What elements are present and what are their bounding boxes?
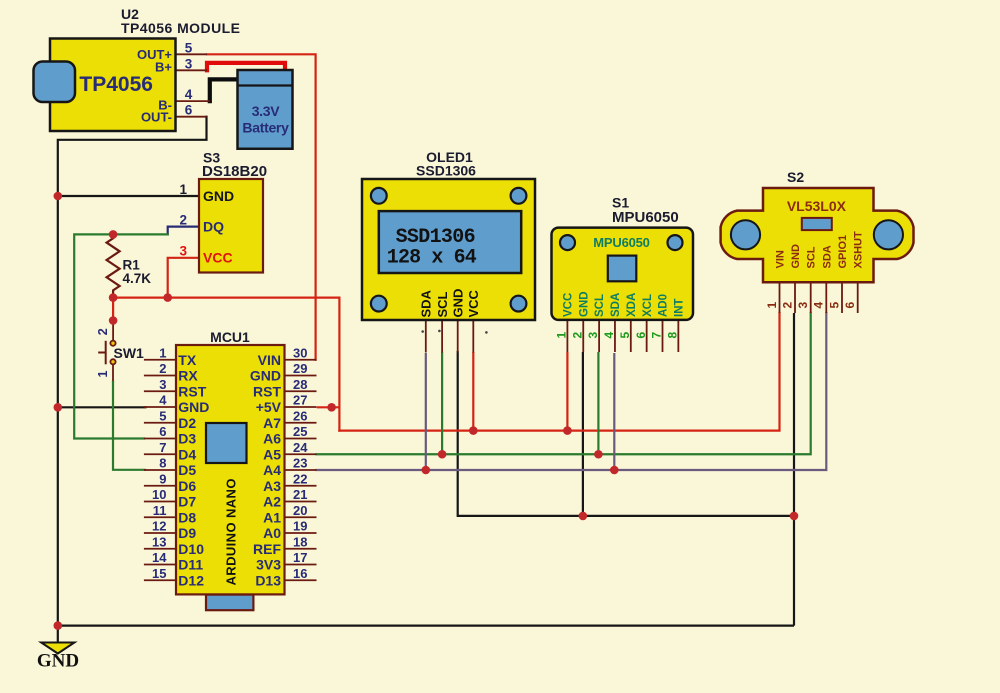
- svg-text:OUT-: OUT-: [141, 109, 172, 124]
- svg-text:Battery: Battery: [242, 120, 289, 136]
- svg-text:3: 3: [179, 244, 187, 259]
- svg-text:GND: GND: [450, 289, 465, 318]
- svg-text:6: 6: [634, 332, 648, 339]
- svg-text:GND: GND: [37, 651, 79, 672]
- svg-text:DS18B20: DS18B20: [202, 163, 267, 180]
- svg-text:11: 11: [153, 503, 167, 518]
- svg-text:+5V: +5V: [256, 399, 282, 415]
- svg-text:16: 16: [293, 566, 307, 581]
- svg-text:24: 24: [293, 440, 308, 455]
- svg-text:13: 13: [152, 534, 166, 549]
- svg-text:3: 3: [185, 56, 193, 71]
- svg-text:4: 4: [185, 87, 193, 102]
- svg-text:S2: S2: [787, 169, 804, 185]
- svg-text:18: 18: [293, 534, 307, 549]
- svg-text:RX: RX: [178, 368, 198, 384]
- svg-text:1: 1: [96, 371, 110, 378]
- svg-text:A3: A3: [263, 478, 281, 494]
- svg-text:6: 6: [185, 103, 193, 118]
- svg-text:23: 23: [293, 456, 307, 471]
- svg-text:22: 22: [293, 471, 307, 486]
- svg-text:D8: D8: [178, 509, 196, 525]
- svg-text:D2: D2: [178, 415, 196, 431]
- svg-text:D9: D9: [178, 525, 196, 541]
- svg-text:6: 6: [843, 302, 857, 309]
- svg-text:MPU6050: MPU6050: [612, 209, 679, 226]
- svg-text:10: 10: [152, 487, 166, 502]
- svg-text:2: 2: [96, 328, 110, 335]
- svg-text:D6: D6: [178, 478, 196, 494]
- svg-text:2: 2: [179, 213, 187, 228]
- svg-text:D3: D3: [178, 431, 196, 447]
- svg-text:25: 25: [293, 424, 307, 439]
- svg-text:29: 29: [293, 361, 307, 376]
- svg-text:1: 1: [159, 345, 166, 360]
- svg-text:3.3V: 3.3V: [252, 103, 281, 119]
- svg-text:SDA: SDA: [821, 245, 833, 268]
- svg-text:SSD1306: SSD1306: [416, 163, 476, 179]
- svg-text:3: 3: [159, 377, 166, 392]
- svg-text:D13: D13: [255, 572, 281, 588]
- svg-text:27: 27: [293, 393, 307, 408]
- svg-text:SSD1306: SSD1306: [396, 226, 476, 249]
- svg-text:8: 8: [665, 332, 679, 339]
- svg-text:20: 20: [293, 503, 307, 518]
- svg-text:30: 30: [293, 345, 307, 360]
- svg-text:ARDUINO NANO: ARDUINO NANO: [224, 478, 239, 585]
- svg-text:D11: D11: [178, 557, 203, 573]
- svg-text:5: 5: [618, 332, 632, 339]
- svg-text:D5: D5: [178, 462, 196, 478]
- svg-text:4: 4: [159, 393, 167, 408]
- svg-text:128 x 64: 128 x 64: [387, 247, 477, 270]
- svg-text:VIN: VIN: [258, 352, 281, 368]
- svg-text:5: 5: [185, 40, 193, 55]
- svg-text:DQ: DQ: [203, 219, 224, 235]
- svg-text:6: 6: [159, 424, 166, 439]
- svg-text:2: 2: [570, 332, 584, 339]
- svg-text:GND: GND: [250, 368, 281, 384]
- svg-text:AD0: AD0: [658, 294, 670, 317]
- svg-text:1: 1: [555, 332, 569, 339]
- svg-text:XSHUT: XSHUT: [853, 231, 865, 269]
- svg-text:MPU6050: MPU6050: [593, 235, 649, 250]
- svg-text:A5: A5: [263, 446, 281, 462]
- svg-text:VCC: VCC: [466, 289, 481, 317]
- svg-text:TP4056 MODULE: TP4056 MODULE: [121, 20, 240, 36]
- svg-text:SDA: SDA: [610, 293, 622, 317]
- svg-text:D10: D10: [178, 541, 204, 557]
- svg-text:B+: B+: [155, 60, 172, 75]
- svg-text:7: 7: [159, 440, 166, 455]
- svg-text:5: 5: [159, 408, 166, 423]
- svg-text:TP4056: TP4056: [79, 73, 153, 96]
- svg-text:28: 28: [293, 377, 307, 392]
- svg-text:19: 19: [293, 519, 307, 534]
- svg-text:SW1: SW1: [114, 345, 145, 361]
- svg-text:TX: TX: [178, 352, 197, 368]
- svg-text:A2: A2: [263, 494, 281, 510]
- svg-text:MCU1: MCU1: [210, 329, 250, 345]
- svg-text:SDA: SDA: [418, 289, 433, 317]
- svg-text:3: 3: [796, 302, 810, 309]
- svg-text:XDA: XDA: [626, 293, 638, 317]
- svg-text:26: 26: [293, 408, 307, 423]
- svg-text:1: 1: [765, 302, 779, 309]
- svg-text:14: 14: [152, 550, 167, 565]
- svg-text:21: 21: [293, 487, 307, 502]
- svg-text:GND: GND: [790, 244, 802, 269]
- svg-text:SCL: SCL: [435, 291, 450, 317]
- svg-text:GND: GND: [203, 188, 234, 204]
- svg-text:12: 12: [152, 519, 166, 534]
- svg-text:8: 8: [159, 456, 166, 471]
- svg-text:A7: A7: [263, 415, 281, 431]
- svg-text:3V3: 3V3: [256, 557, 281, 573]
- svg-text:4: 4: [602, 332, 616, 339]
- svg-text:A4: A4: [263, 462, 281, 478]
- svg-text:4.7K: 4.7K: [123, 271, 152, 286]
- svg-text:3: 3: [586, 332, 600, 339]
- svg-text:7: 7: [650, 332, 664, 339]
- svg-text:A6: A6: [263, 431, 281, 447]
- svg-text:15: 15: [152, 566, 166, 581]
- svg-text:2: 2: [159, 361, 166, 376]
- svg-text:4: 4: [812, 302, 826, 309]
- svg-text:VCC: VCC: [203, 250, 233, 266]
- svg-text:XCL: XCL: [642, 294, 654, 317]
- svg-text:REF: REF: [253, 541, 281, 557]
- svg-text:D12: D12: [178, 572, 204, 588]
- svg-text:GND: GND: [178, 399, 209, 415]
- svg-text:VIN: VIN: [774, 250, 786, 268]
- svg-text:A1: A1: [263, 509, 281, 525]
- svg-text:D4: D4: [178, 446, 196, 462]
- svg-text:1: 1: [179, 182, 187, 197]
- svg-text:17: 17: [293, 550, 307, 565]
- svg-text:D7: D7: [178, 494, 196, 510]
- svg-text:5: 5: [827, 302, 841, 309]
- svg-text:SCL: SCL: [594, 294, 606, 317]
- svg-text:RST: RST: [253, 383, 281, 399]
- svg-text:GPIO1: GPIO1: [837, 235, 849, 269]
- svg-text:A0: A0: [263, 525, 281, 541]
- svg-text:RST: RST: [178, 383, 206, 399]
- svg-text:GND: GND: [578, 291, 590, 317]
- svg-text:9: 9: [159, 471, 166, 486]
- svg-text:INT: INT: [673, 298, 685, 317]
- svg-text:VCC: VCC: [563, 293, 575, 317]
- svg-text:SCL: SCL: [806, 246, 818, 268]
- svg-text:2: 2: [780, 302, 794, 309]
- svg-text:VL53L0X: VL53L0X: [787, 198, 847, 214]
